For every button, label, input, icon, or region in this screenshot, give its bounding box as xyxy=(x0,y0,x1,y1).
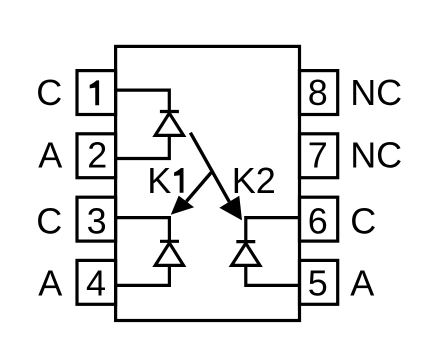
wire pin1 to D1 cathode xyxy=(116,90,170,111)
diode D3 triangle xyxy=(232,243,260,265)
IC body U1 xyxy=(116,46,300,320)
pin 6 box xyxy=(300,197,338,241)
pin 7 box xyxy=(300,134,338,178)
svg-text:6: 6 xyxy=(308,201,328,242)
wire pin6 to D3 cathode xyxy=(246,218,300,242)
pin 1 box xyxy=(77,71,116,115)
pin 4 box xyxy=(77,260,116,304)
svg-text:A: A xyxy=(38,263,62,304)
pin 2 box xyxy=(77,134,116,178)
svg-text:NC: NC xyxy=(350,135,402,176)
svg-text:8: 8 xyxy=(308,72,328,113)
svg-text:C: C xyxy=(36,200,62,241)
svg-text:NC: NC xyxy=(350,72,402,113)
pin 3 box xyxy=(77,197,116,241)
svg-text:5: 5 xyxy=(308,263,328,304)
arrow K1 head xyxy=(171,196,194,215)
arrow K1 branch xyxy=(186,172,211,201)
svg-text:A: A xyxy=(350,263,374,304)
svg-text:A: A xyxy=(38,135,62,176)
svg-text:3: 3 xyxy=(87,201,107,242)
svg-text:4: 4 xyxy=(86,263,106,304)
diode D3 cathode bar xyxy=(236,240,255,243)
svg-text:2: 2 xyxy=(87,134,107,175)
wire pin3 to D2 cathode xyxy=(116,218,170,242)
svg-text:K: K xyxy=(147,160,171,201)
label K1 xyxy=(147,160,183,201)
svg-text:C: C xyxy=(36,72,62,113)
svg-text:C: C xyxy=(350,200,376,241)
pin 1 number xyxy=(90,80,99,105)
wire D1 anode to pin2 xyxy=(116,135,170,158)
diode D1 cathode bar xyxy=(160,110,179,113)
wire D3 anode to pin5 xyxy=(246,265,300,285)
arrow stem from D1 xyxy=(190,133,229,202)
pin 5 box xyxy=(300,260,338,304)
diode D2 triangle xyxy=(155,243,183,265)
svg-text:K2: K2 xyxy=(232,160,276,201)
wire D2 anode to pin4 xyxy=(116,265,170,285)
arrow K2 head xyxy=(219,196,242,221)
svg-text:7: 7 xyxy=(308,134,328,175)
diode D1 triangle xyxy=(155,113,183,135)
diode D2 cathode bar xyxy=(160,240,179,243)
pin 8 box xyxy=(300,71,338,115)
